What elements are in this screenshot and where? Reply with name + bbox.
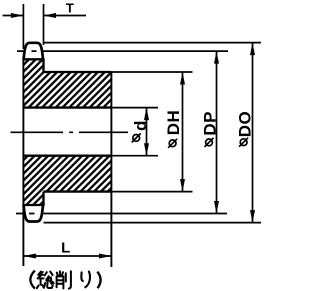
svg-text:DO: DO	[236, 111, 255, 138]
caption kanji SAKU (left part shou)	[57, 271, 64, 288]
T dimension line left part	[3, 15, 24, 17]
tooth bottom profile	[24, 205, 43, 222]
phi-DH arrow up	[180, 72, 185, 85]
T dimension line right part	[44, 15, 87, 17]
svg-text:T: T	[66, 1, 74, 16]
pitch line bottom (chain line)	[16, 213, 227, 215]
dimension phi-d line	[146, 108, 148, 156]
plate right edge upper	[42, 59, 44, 72]
pitch line top (chain line)	[17, 50, 228, 52]
hub line top extension	[111, 71, 192, 73]
caption kanji SAKU (right part knife)	[66, 271, 71, 288]
tooth top profile	[24, 43, 43, 60]
dimension phi-DP line	[216, 51, 218, 213]
bore line top extension	[111, 107, 158, 109]
label phi-DH	[164, 110, 183, 148]
phi-DP arrow down	[214, 201, 219, 214]
L dimension line	[23, 255, 111, 257]
bore top edge	[23, 106, 111, 108]
hatch upper section (plate + hub)	[23, 60, 111, 107]
phi-DO arrow up	[250, 43, 255, 56]
tooth bottom base line	[22, 204, 44, 206]
bore bottom edge	[23, 155, 111, 157]
hub bottom edge	[44, 190, 112, 192]
phi-d arrow down	[144, 143, 149, 156]
caption kana RI	[81, 272, 90, 288]
outer diameter line top extension	[44, 42, 262, 44]
caption parenthesis left	[30, 271, 35, 289]
svg-text:DP: DP	[201, 111, 220, 136]
caption kanji SOU (left radical ito-hen)	[37, 272, 44, 289]
T extension line right	[43, 4, 45, 45]
label phi-DP	[201, 111, 220, 147]
svg-text:DH: DH	[164, 110, 183, 136]
phi-d arrow up	[144, 108, 149, 121]
center line	[11, 131, 129, 133]
caption parenthesis right	[97, 272, 100, 289]
hub line bottom extension	[111, 191, 192, 193]
bore line bottom extension	[111, 155, 158, 157]
svg-text:L: L	[61, 240, 70, 257]
caption kanji SOU (right part)	[44, 272, 53, 288]
dimension phi-DH line	[182, 72, 184, 192]
outer diameter line bottom extension	[44, 222, 262, 224]
L arrow right	[99, 254, 112, 259]
T extension line left	[22, 4, 24, 49]
hub top edge	[44, 71, 112, 73]
phi-DP arrow up	[214, 51, 219, 64]
L arrow left	[23, 254, 36, 259]
phi-DH arrow down	[180, 179, 185, 192]
hub right edge (extends down to L dimension)	[110, 72, 112, 267]
hatch lower section (plate + hub)	[23, 157, 111, 205]
label phi-DO	[236, 111, 255, 147]
T arrow right	[44, 13, 57, 18]
plate left edge (extends down to L dimension)	[22, 59, 24, 266]
T arrow left	[11, 13, 24, 18]
tooth top base line	[22, 58, 44, 60]
phi-DO arrow down	[250, 210, 255, 223]
label phi-d	[131, 121, 150, 143]
svg-text:d: d	[131, 121, 150, 131]
plate right edge lower	[42, 192, 44, 205]
dimension phi-DO line	[252, 43, 254, 223]
